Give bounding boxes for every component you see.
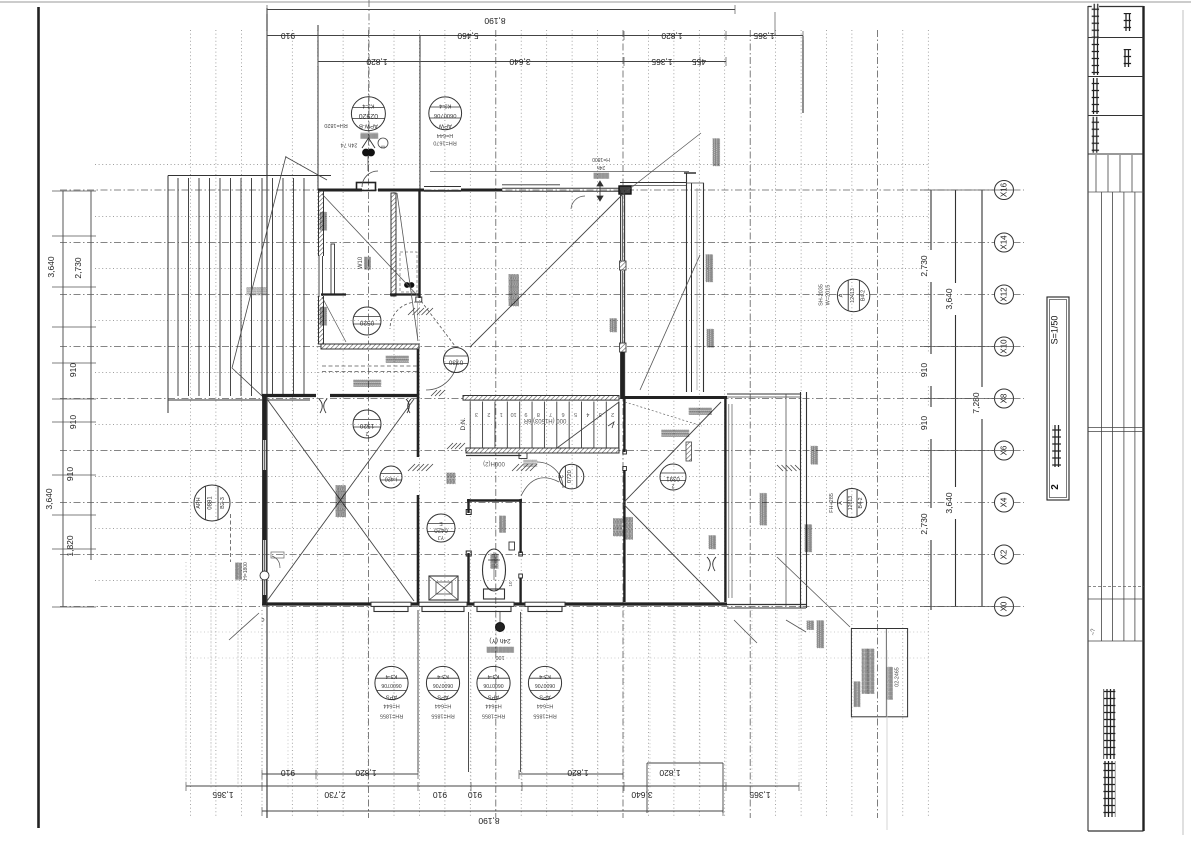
yoshitsu2 top wall	[622, 396, 727, 399]
door hinge dots top	[363, 149, 370, 156]
WIC inner wall y294	[321, 293, 346, 295]
svg-text:0600706: 0600706	[483, 682, 503, 688]
svg-text:▒▒: ▒▒	[807, 620, 815, 630]
svg-text:▒▒▒▒▒▒: ▒▒▒▒▒▒	[854, 681, 861, 707]
svg-text:RH=1855: RH=1855	[380, 713, 403, 719]
void long diagonal	[232, 156, 286, 368]
right wall hatch block 2	[620, 343, 627, 352]
extension x803	[802, 36, 804, 113]
svg-text:▒▒▒▒▒▒▒▒▒▒▒: ▒▒▒▒▒▒▒▒▒▒▒	[868, 648, 875, 694]
svg-text:FH+285: FH+285	[829, 493, 835, 513]
door jamb yoshitsu2 b	[623, 467, 627, 471]
tag 1630	[660, 464, 686, 490]
title kanji	[1052, 425, 1061, 467]
svg-text:APS: APS	[437, 694, 448, 700]
svg-text:7: 7	[549, 411, 552, 417]
right wall solid lower	[621, 352, 624, 399]
right dim line x982	[981, 190, 983, 606]
wall extension below x468	[468, 612, 470, 772]
svg-text:2: 2	[611, 411, 614, 417]
top wall of plan	[318, 189, 362, 192]
door jamb hall b	[519, 574, 523, 578]
wall extension below x520	[520, 612, 522, 772]
bottom tag x443	[426, 666, 459, 699]
svg-text:RH=1670: RH=1670	[433, 139, 456, 145]
svg-text:H=1800: H=1800	[243, 562, 249, 580]
corridor / stairs top wall	[463, 396, 619, 401]
svg-text:▒▒▒▒: ▒▒▒▒	[594, 172, 610, 179]
diagonal arrowhead	[608, 422, 614, 428]
washbasin	[429, 576, 458, 600]
svg-text:0720: 0720	[567, 470, 573, 483]
faint scan streak	[886, 650, 888, 830]
sleeve hole symbol on left wall	[260, 571, 269, 580]
svg-text:▒▒▒▒: ▒▒▒▒	[247, 287, 267, 295]
svg-text:3: 3	[475, 411, 478, 417]
svg-text:▒▒▒▒: ▒▒▒▒	[811, 446, 819, 465]
svg-text:H=644: H=644	[437, 132, 453, 138]
svg-text:▒▒▒▒▒▒: ▒▒▒▒▒▒	[713, 138, 721, 166]
tag 0720	[559, 464, 584, 489]
void lower diagonal	[232, 368, 262, 396]
toilet door jamb 2	[466, 551, 471, 556]
yoshitsu1 top wall	[262, 394, 316, 397]
window top wall 2	[502, 184, 560, 186]
svg-text:H=644: H=644	[383, 703, 399, 709]
svg-text:8,190: 8,190	[478, 816, 500, 826]
note box bottom right	[851, 629, 907, 717]
svg-text:A: A	[839, 293, 845, 297]
door squiggle yoshitsu2 right a	[707, 557, 710, 571]
svg-text:1520: 1520	[359, 422, 374, 429]
closet right diagonal	[397, 193, 418, 341]
svg-text:▒▒▒▒▒▒▒▒: ▒▒▒▒▒▒▒▒	[887, 666, 894, 700]
svg-text:▒▒▒▒: ▒▒▒▒	[624, 517, 633, 540]
svg-text:X2: X2	[1000, 549, 1009, 559]
balcony right (roof balcony)	[785, 394, 787, 606]
svg-text:▒▒▒▒▒: ▒▒▒▒▒	[360, 132, 378, 139]
svg-text:1,365: 1,365	[651, 57, 673, 67]
tag SH-2035	[837, 279, 869, 311]
WIC right wall	[418, 190, 420, 298]
WIC bottom hatched wall	[321, 344, 419, 349]
svg-text:5: 5	[574, 411, 577, 417]
window top wall 1	[424, 190, 461, 192]
svg-text:0600706: 0600706	[381, 682, 401, 688]
balcony diagonal top-right	[640, 255, 700, 390]
svg-text:910: 910	[468, 790, 482, 800]
svg-text:24h: 24h	[597, 164, 606, 170]
WIC left hatched wall	[319, 191, 324, 344]
svg-text:A: A	[838, 501, 844, 505]
svg-text:1,365: 1,365	[749, 790, 771, 800]
svg-text:K3-4: K3-4	[437, 673, 449, 679]
svg-text:10: 10	[508, 581, 513, 587]
left dim line x63	[62, 191, 64, 607]
svg-text:1,820: 1,820	[661, 31, 683, 41]
svg-text:▒▒▒▒▒▒▒: ▒▒▒▒▒▒▒	[760, 493, 768, 526]
title block column verticals	[1101, 192, 1103, 641]
void vertical line	[177, 178, 179, 396]
svg-text:SH-2035: SH-2035	[818, 284, 824, 306]
svg-text:0891: 0891	[208, 496, 214, 510]
bottom tag x545	[528, 666, 561, 699]
right wall hatch block 1	[620, 261, 627, 270]
vent dot bottom	[496, 623, 505, 632]
WIC wall window line a	[318, 256, 320, 296]
svg-text:B2-3: B2-3	[220, 497, 226, 509]
balcony top-right (narrow)	[686, 173, 688, 392]
svg-text:0600706: 0600706	[535, 682, 555, 688]
corridor left wall x418	[417, 344, 420, 457]
svg-text:K3-4: K3-4	[386, 673, 398, 679]
tag H420	[380, 466, 402, 488]
svg-text:S=1/50: S=1/50	[1050, 316, 1060, 345]
svg-text:0730: 0730	[448, 359, 463, 366]
bottom dimension lines	[262, 773, 418, 775]
svg-text:02920: 02920	[359, 112, 379, 119]
svg-text:0600706: 0600706	[434, 112, 457, 118]
svg-text:3,640: 3,640	[944, 288, 954, 310]
leader curve from 0720	[521, 478, 559, 496]
stamp text cell2	[1124, 49, 1131, 67]
svg-text:▒▒▒▒: ▒▒▒▒	[320, 307, 328, 326]
svg-text:▒▒▒▒▒: ▒▒▒▒▒	[689, 407, 712, 415]
svg-text:8,190: 8,190	[484, 16, 506, 26]
master bedroom diagonal	[470, 190, 627, 347]
tag 0730	[444, 348, 469, 373]
svg-text:I-420: I-420	[385, 476, 398, 482]
svg-text:K3-4: K3-4	[438, 102, 451, 108]
stamp text cell1	[1124, 13, 1131, 31]
door jamb yoshitsu2 a	[623, 450, 627, 454]
bottom exterior wall	[262, 602, 371, 605]
WIC closet rod dashed lines	[322, 365, 417, 367]
svg-text:H=1800: H=1800	[592, 156, 610, 162]
svg-text:1,365: 1,365	[212, 790, 234, 800]
svg-text:910: 910	[281, 31, 295, 41]
svg-text:2: 2	[1050, 484, 1061, 490]
lower closet diagonal	[322, 297, 346, 342]
WIC wall window line b	[322, 256, 324, 296]
W10 folding door panel	[331, 244, 335, 294]
svg-text:▒▒▒▒▒▒: ▒▒▒▒▒▒	[661, 429, 689, 437]
svg-text:K3-4: K3-4	[362, 103, 375, 109]
vertical grid lines	[190, 30, 192, 818]
svg-text:▒▒▒: ▒▒▒	[613, 518, 623, 536]
sash right wall 2	[622, 271, 624, 343]
shelf dashed rect	[400, 252, 417, 292]
solid grid line x267	[266, 8, 268, 818]
svg-text:7,280: 7,280	[971, 392, 981, 414]
svg-text:910: 910	[433, 790, 447, 800]
overflow leader top	[627, 133, 701, 191]
svg-text:▒▒▒▒: ▒▒▒▒	[320, 212, 328, 231]
stairs bottom wall	[466, 448, 619, 453]
title block small column lines	[1095, 155, 1097, 192]
svg-text:▒▒▒: ▒▒▒	[365, 256, 372, 270]
hatch tick clusters	[408, 308, 415, 315]
svg-text:455: 455	[692, 57, 706, 67]
title block middle dividers	[1088, 427, 1144, 429]
axis chain x369 top	[368, 0, 370, 150]
left exterior wall	[262, 395, 264, 604]
svg-text:D.N.: D.N.	[460, 417, 467, 430]
void left edge	[167, 176, 169, 414]
svg-text:3,640: 3,640	[46, 256, 56, 278]
svg-text:c: c	[262, 616, 265, 622]
svg-text:▒▒▒▒▒: ▒▒▒▒▒	[336, 485, 347, 518]
toilet walls	[467, 499, 469, 513]
svg-text:YJ: YJ	[438, 534, 444, 540]
svg-text:▒▒▒▒▒▒▒: ▒▒▒▒▒▒▒	[487, 646, 514, 653]
left wall window 1	[264, 440, 266, 470]
svg-text:▒▒▒▒▒▒: ▒▒▒▒▒▒	[805, 524, 813, 552]
vent arc small	[571, 196, 585, 209]
svg-text:▒▒▒▒▒: ▒▒▒▒▒	[386, 355, 409, 363]
svg-text:▒▒▒▒▒▒: ▒▒▒▒▒▒	[817, 620, 825, 648]
svg-text:X14: X14	[1000, 235, 1009, 250]
svg-text:3,640: 3,640	[509, 57, 531, 67]
bottom extension verticals	[185, 610, 187, 788]
yoshitsu2 left wall	[623, 397, 625, 452]
window tag top 2	[429, 97, 462, 130]
hinge dot b	[409, 283, 414, 288]
W circle	[378, 138, 388, 148]
svg-text:APW-B: APW-B	[359, 123, 378, 129]
svg-text:12413: 12413	[850, 288, 856, 303]
axis label circles X16..X0	[995, 181, 1014, 200]
company name part1	[1103, 761, 1115, 817]
svg-text:2,730: 2,730	[919, 255, 929, 277]
svg-text:2,730: 2,730	[73, 257, 83, 279]
svg-text:2: 2	[671, 483, 674, 489]
yoshitsu1 upper closet diagonal	[322, 194, 418, 296]
corridor door arc	[426, 359, 457, 390]
corner leaders bottom	[229, 613, 259, 640]
svg-text:RH=1855: RH=1855	[533, 713, 556, 719]
svg-text:12613: 12613	[848, 496, 854, 511]
svg-text:RH=1855: RH=1855	[431, 713, 454, 719]
svg-text:K3-4: K3-4	[488, 673, 500, 679]
svg-text:6: 6	[562, 411, 565, 417]
eave line top	[430, 171, 689, 173]
right dim line x955	[955, 190, 957, 606]
door squiggle yoshitsu2 right b	[713, 557, 716, 571]
svg-text:▒▒▒▒: ▒▒▒▒	[500, 515, 507, 533]
yoshitsu2 right wall	[724, 397, 726, 602]
title block top line	[1088, 6, 1144, 8]
master bedroom right wall	[620, 190, 622, 399]
svg-text:APS: APS	[539, 694, 550, 700]
svg-text:APH: APH	[196, 497, 202, 508]
svg-text:▒▒▒▒▒▒: ▒▒▒▒▒▒	[353, 379, 381, 387]
svg-text:000 (H1503) 6R: 000 (H1503) 6R	[523, 417, 566, 423]
door squiggles yoshitsu1 top	[319, 399, 322, 413]
title block divider 1	[1088, 37, 1144, 39]
svg-text:▒▒: ▒▒	[447, 472, 456, 484]
right dim line x931	[930, 190, 932, 610]
WIC door jamb block	[416, 297, 422, 302]
svg-text:APS: APS	[386, 694, 397, 700]
svg-text:0391: 0391	[666, 475, 680, 481]
balcony door sill top wall	[357, 183, 376, 191]
svg-text:5,460: 5,460	[457, 31, 479, 41]
svg-text:2,730: 2,730	[919, 513, 929, 535]
svg-text:▒▒▒▒: ▒▒▒▒	[236, 562, 243, 580]
page left border	[37, 7, 40, 828]
svg-text:▒▒▒: ▒▒▒	[610, 318, 618, 332]
svg-text:910: 910	[68, 363, 78, 377]
title block divider 3	[1088, 115, 1144, 117]
door jamb hall a	[519, 552, 523, 556]
toilet door jamb 1	[466, 510, 471, 515]
sash right wall 1	[622, 196, 624, 260]
stair diagonal	[557, 402, 619, 448]
void top edge	[168, 175, 331, 177]
tag 0520	[353, 307, 381, 335]
svg-text:910: 910	[919, 416, 929, 430]
leader dash to sleeve note	[230, 514, 232, 562]
title block divider 4	[1088, 153, 1144, 155]
yoshitsu1 X diagonals	[267, 399, 414, 601]
svg-text:24h 74: 24h 74	[341, 142, 358, 148]
svg-text:2,730: 2,730	[324, 790, 346, 800]
svg-text:H=644: H=644	[537, 703, 553, 709]
leader to closet label	[625, 402, 702, 426]
WIC divider hatched wall	[391, 193, 396, 296]
svg-text:910: 910	[68, 415, 78, 429]
left dim line x91	[90, 191, 92, 560]
right dimension texts	[922, 250, 932, 282]
tag right 2	[838, 489, 867, 518]
svg-text:▒▒▒: ▒▒▒	[491, 554, 499, 569]
top dimension lines	[267, 9, 735, 11]
svg-text:4: 4	[586, 411, 589, 417]
svg-text:10: 10	[511, 411, 517, 417]
svg-text:APW: APW	[438, 122, 452, 128]
svg-text:APS: APS	[488, 694, 499, 700]
left dimension ticks	[52, 190, 96, 192]
svg-text:1,365: 1,365	[753, 31, 775, 41]
svg-text:▒▒▒▒: ▒▒▒▒	[707, 329, 715, 348]
door opening thin line	[417, 302, 419, 341]
company name part2	[1103, 689, 1115, 759]
drawing title box	[1047, 297, 1069, 500]
balcony door arc top	[362, 171, 378, 187]
toilet right wall lower	[519, 578, 521, 604]
svg-text:1,820: 1,820	[659, 768, 681, 778]
window tag top 1	[351, 97, 385, 131]
svg-text:02-2465: 02-2465	[894, 667, 900, 686]
tag 0420	[427, 514, 455, 542]
left wall window 2	[264, 540, 266, 595]
tag 1520	[353, 410, 381, 438]
svg-text:3,640: 3,640	[44, 488, 54, 510]
svg-text:910: 910	[65, 467, 75, 481]
bottom tag x391.5	[375, 666, 408, 699]
svg-text:1,820: 1,820	[567, 768, 589, 778]
svg-text:3,640: 3,640	[631, 790, 653, 800]
svg-text:H=644: H=644	[435, 703, 451, 709]
landing lower edge	[466, 455, 521, 457]
scan top edge	[0, 1, 1191, 3]
svg-text:~?: ~?	[1091, 628, 1097, 636]
wall extension below x418	[417, 610, 419, 772]
paper holder	[509, 542, 515, 550]
svg-text:910: 910	[919, 363, 929, 377]
svg-text:2: 2	[365, 430, 368, 436]
staircase treads	[469, 402, 471, 449]
title block left line	[1087, 6, 1089, 831]
bottom windows (protruding)	[371, 602, 411, 606]
extension x420 top	[419, 35, 421, 190]
svg-text:▒▒▒▒▒▒: ▒▒▒▒▒▒	[706, 254, 714, 282]
void bottom edge	[168, 399, 310, 401]
svg-text:24h (Y): 24h (Y)	[489, 637, 510, 644]
svg-text:1,820: 1,820	[366, 57, 388, 67]
hinge dot a	[405, 283, 410, 288]
svg-text:H=644: H=644	[485, 703, 501, 709]
balcony inner line	[696, 188, 698, 390]
title block divider 2	[1088, 76, 1144, 78]
svg-text:1,820: 1,820	[355, 768, 377, 778]
svg-text:X4: X4	[1000, 497, 1009, 507]
toilet top wall	[467, 499, 522, 501]
svg-text:9: 9	[524, 411, 527, 417]
yoshitsu2 V diagonals	[623, 402, 721, 503]
svg-text:3,640: 3,640	[944, 492, 954, 514]
horizontal axis chain lines (X0..X16)	[60, 189, 994, 191]
svg-text:0600706: 0600706	[433, 682, 453, 688]
extension x318 top	[317, 25, 319, 190]
dashed leader to 0730 tag	[421, 301, 455, 346]
title block dashed row	[1088, 586, 1144, 588]
void corner diagonal	[286, 157, 327, 180]
scan right edge shadow	[1182, 10, 1184, 835]
tag left APH	[194, 485, 230, 521]
svg-text:RH=1820: RH=1820	[324, 122, 347, 128]
title block bottom line	[1088, 830, 1144, 832]
svg-text:1: 1	[500, 411, 503, 417]
window band top wall	[502, 190, 619, 192]
wedge arrow symbol	[362, 138, 375, 148]
title block cell labels	[1092, 4, 1099, 40]
svg-text:0520: 0520	[359, 319, 374, 326]
svg-text:8: 8	[537, 411, 540, 417]
yoshitsu2 door arc	[537, 462, 563, 488]
svg-text:X12: X12	[1000, 287, 1009, 302]
title block right thick line	[1142, 6, 1144, 831]
sash line right of wall	[728, 404, 730, 598]
svg-text:1,820: 1,820	[65, 535, 75, 557]
double arrow window symbol	[597, 181, 603, 201]
top-right wall corner block	[619, 186, 631, 194]
landing notch	[519, 453, 527, 459]
WIC door dashed arc	[390, 302, 417, 329]
svg-text:000H(2): 000H(2)	[483, 460, 505, 466]
toilet right wall upper	[519, 499, 521, 553]
svg-text:W=2015: W=2015	[826, 285, 832, 306]
svg-text:B4-2: B4-2	[861, 290, 867, 301]
svg-text:B4-2: B4-2	[858, 497, 864, 508]
svg-text:0420: 0420	[434, 527, 448, 533]
svg-text:K3-4: K3-4	[539, 673, 551, 679]
svg-text:100: 100	[495, 654, 504, 660]
svg-text:▒▒▒: ▒▒▒	[709, 535, 717, 549]
svg-text:RH=1855: RH=1855	[482, 713, 505, 719]
bottom tag x493.5	[477, 666, 510, 699]
